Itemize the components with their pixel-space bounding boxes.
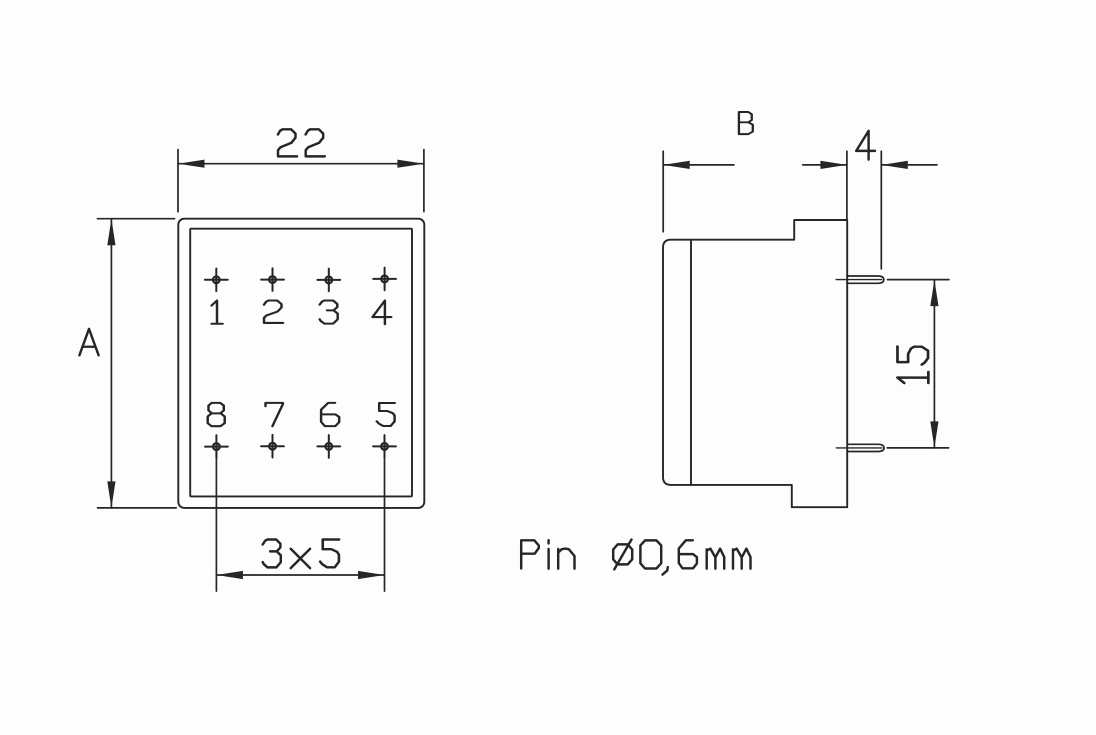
dimension 15: dimension line [933, 280, 935, 448]
pin number 4 [373, 300, 392, 324]
pin 3 marker [317, 269, 340, 292]
pin number 5 [377, 403, 395, 426]
dimension 15: extension lines [887, 280, 949, 448]
dimension A: dimension line [110, 219, 112, 508]
dimension 4: extension lines [847, 151, 881, 269]
dimension 15: rotated text [897, 347, 928, 384]
dimension 4: text [856, 131, 875, 160]
bottom pin centerline [836, 447, 882, 449]
dimension 22: dimension line [178, 163, 424, 165]
right view: body outline [663, 220, 847, 507]
pin 2 marker [261, 268, 284, 291]
dimension 22: extension lines [178, 150, 424, 212]
dimension 4: dimension lines outside [803, 164, 937, 166]
dimension 22: text [278, 129, 325, 156]
pin 8 marker [205, 435, 228, 458]
dimension 3x5: arrowheads [216, 571, 243, 579]
dimension B: dimension line (open ended) [663, 164, 734, 166]
pin 5 marker [373, 435, 396, 458]
left view: inner case edge [190, 229, 412, 497]
dimension 3x5: text [263, 540, 339, 569]
pin 6 marker [317, 435, 340, 458]
pin 4 marker [373, 268, 396, 291]
right view: inner core edge line [690, 240, 692, 485]
dimension 22: arrowheads [178, 160, 205, 168]
pin number 1 [208, 300, 395, 426]
dimension A: text [79, 329, 98, 355]
pin number 2 [264, 300, 283, 322]
note text: Pin diameter 0,6mm [521, 540, 750, 575]
dimension 3x5: dimension line [216, 574, 384, 576]
pin 1 marker [205, 269, 228, 292]
dimension B: text [739, 112, 753, 134]
pin 7 marker [261, 435, 284, 458]
pin number 3 [320, 300, 338, 323]
dimension B: arrowhead [663, 161, 690, 169]
dimension 15: arrowheads [930, 280, 938, 307]
bottom pin side view [847, 444, 884, 451]
dimension A: arrowheads [107, 219, 115, 246]
dimension 3x5: extension lines from pins 8 and 5 [216, 446, 384, 591]
top pin side view [847, 276, 884, 283]
dimension A: extension ticks [98, 219, 177, 508]
left view: outer case outline [178, 219, 424, 508]
dimension 4: arrowheads [820, 161, 847, 169]
top pin centerline [836, 279, 881, 281]
dimension B: extension line [662, 151, 664, 232]
pin number 6 [321, 403, 339, 426]
pin number 8 [208, 403, 225, 426]
pin number 7 [266, 403, 283, 426]
